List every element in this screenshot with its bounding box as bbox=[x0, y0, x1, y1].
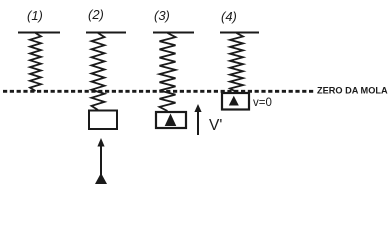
pan box 2 (empty) bbox=[89, 111, 117, 130]
zero-da-mola dashed reference line bbox=[3, 90, 314, 93]
svg-text:V': V' bbox=[209, 117, 222, 134]
pan box 4 bbox=[222, 93, 249, 110]
spring 1 bbox=[30, 33, 41, 91]
support bar 1 bbox=[18, 32, 60, 34]
support bar 4 bbox=[220, 32, 259, 34]
spring 3 bbox=[160, 33, 176, 111]
velocity arrow V' (beside box 3) bbox=[197, 110, 199, 135]
support bar 3 bbox=[153, 32, 194, 34]
spring 2 bbox=[92, 33, 105, 110]
launch arrow below box 2 bbox=[100, 145, 102, 176]
launched mass triangle bbox=[95, 173, 107, 184]
svg-text:(1): (1) bbox=[27, 8, 43, 23]
support bar 2 bbox=[86, 32, 126, 34]
spring 4 bbox=[230, 33, 243, 92]
mass triangle in box 4 bbox=[229, 96, 239, 106]
pan box 3 bbox=[156, 112, 186, 128]
svg-text:(2): (2) bbox=[88, 7, 104, 22]
svg-text:(4): (4) bbox=[221, 9, 237, 24]
mass triangle in box 3 bbox=[165, 114, 177, 127]
svg-text:v=0: v=0 bbox=[253, 97, 272, 109]
svg-text:(3): (3) bbox=[154, 8, 170, 23]
svg-text:ZERO DA MOLA: ZERO DA MOLA bbox=[317, 86, 388, 96]
